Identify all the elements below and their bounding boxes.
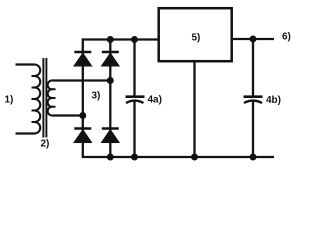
svg-text:4a): 4a) <box>148 95 162 106</box>
junction dot top rail / C4a <box>131 36 138 43</box>
capacitor C4a wire top <box>133 40 135 96</box>
transformer core line right <box>45 58 47 138</box>
svg-text:4b): 4b) <box>266 95 281 106</box>
capacitor C4b plates <box>244 97 263 103</box>
wire secondary top to bridge AC1 <box>53 79 111 81</box>
wire top rail + bridge left rail + bottom rail <box>83 40 274 158</box>
svg-text:2): 2) <box>41 139 50 150</box>
junction dot AC1 / right rail <box>107 77 114 84</box>
junction dot bottom rail / C4a <box>131 154 138 161</box>
wire regulator output <box>232 38 274 40</box>
diode D1 top-left <box>74 52 92 66</box>
capacitor C4a wire bottom <box>133 102 135 158</box>
bridge right rail <box>109 38 111 157</box>
svg-text:1): 1) <box>5 95 14 106</box>
svg-text:3): 3) <box>92 91 101 102</box>
transformer primary bottom lead <box>16 132 35 134</box>
diode D3 bottom-left <box>74 129 92 143</box>
diode D4 bottom-right <box>102 129 120 143</box>
junction dot bottom rail / regulator ground <box>191 154 198 161</box>
diode D2 top-right <box>102 52 120 66</box>
capacitor C4a plates <box>126 97 145 103</box>
capacitor C4b wire bottom <box>252 102 254 158</box>
junction dot output / C4b <box>250 36 257 43</box>
junction dot top rail / right rail <box>107 36 114 43</box>
svg-text:6): 6) <box>282 31 291 42</box>
svg-text:5): 5) <box>192 32 201 43</box>
capacitor C4b wire top <box>252 39 254 96</box>
junction dot AC2 / left rail <box>79 112 86 119</box>
transformer primary top lead <box>16 63 35 65</box>
wire secondary bottom to bridge AC2 <box>53 114 83 116</box>
wire regulator ground <box>193 61 195 157</box>
regulator box U5 <box>159 8 232 61</box>
transformer secondary winding L2 <box>48 80 56 115</box>
transformer primary winding L1 <box>32 65 41 134</box>
transformer core line left <box>42 58 44 138</box>
junction dot bottom rail / C4b <box>250 154 257 161</box>
junction dot bottom rail / right rail <box>107 154 114 161</box>
